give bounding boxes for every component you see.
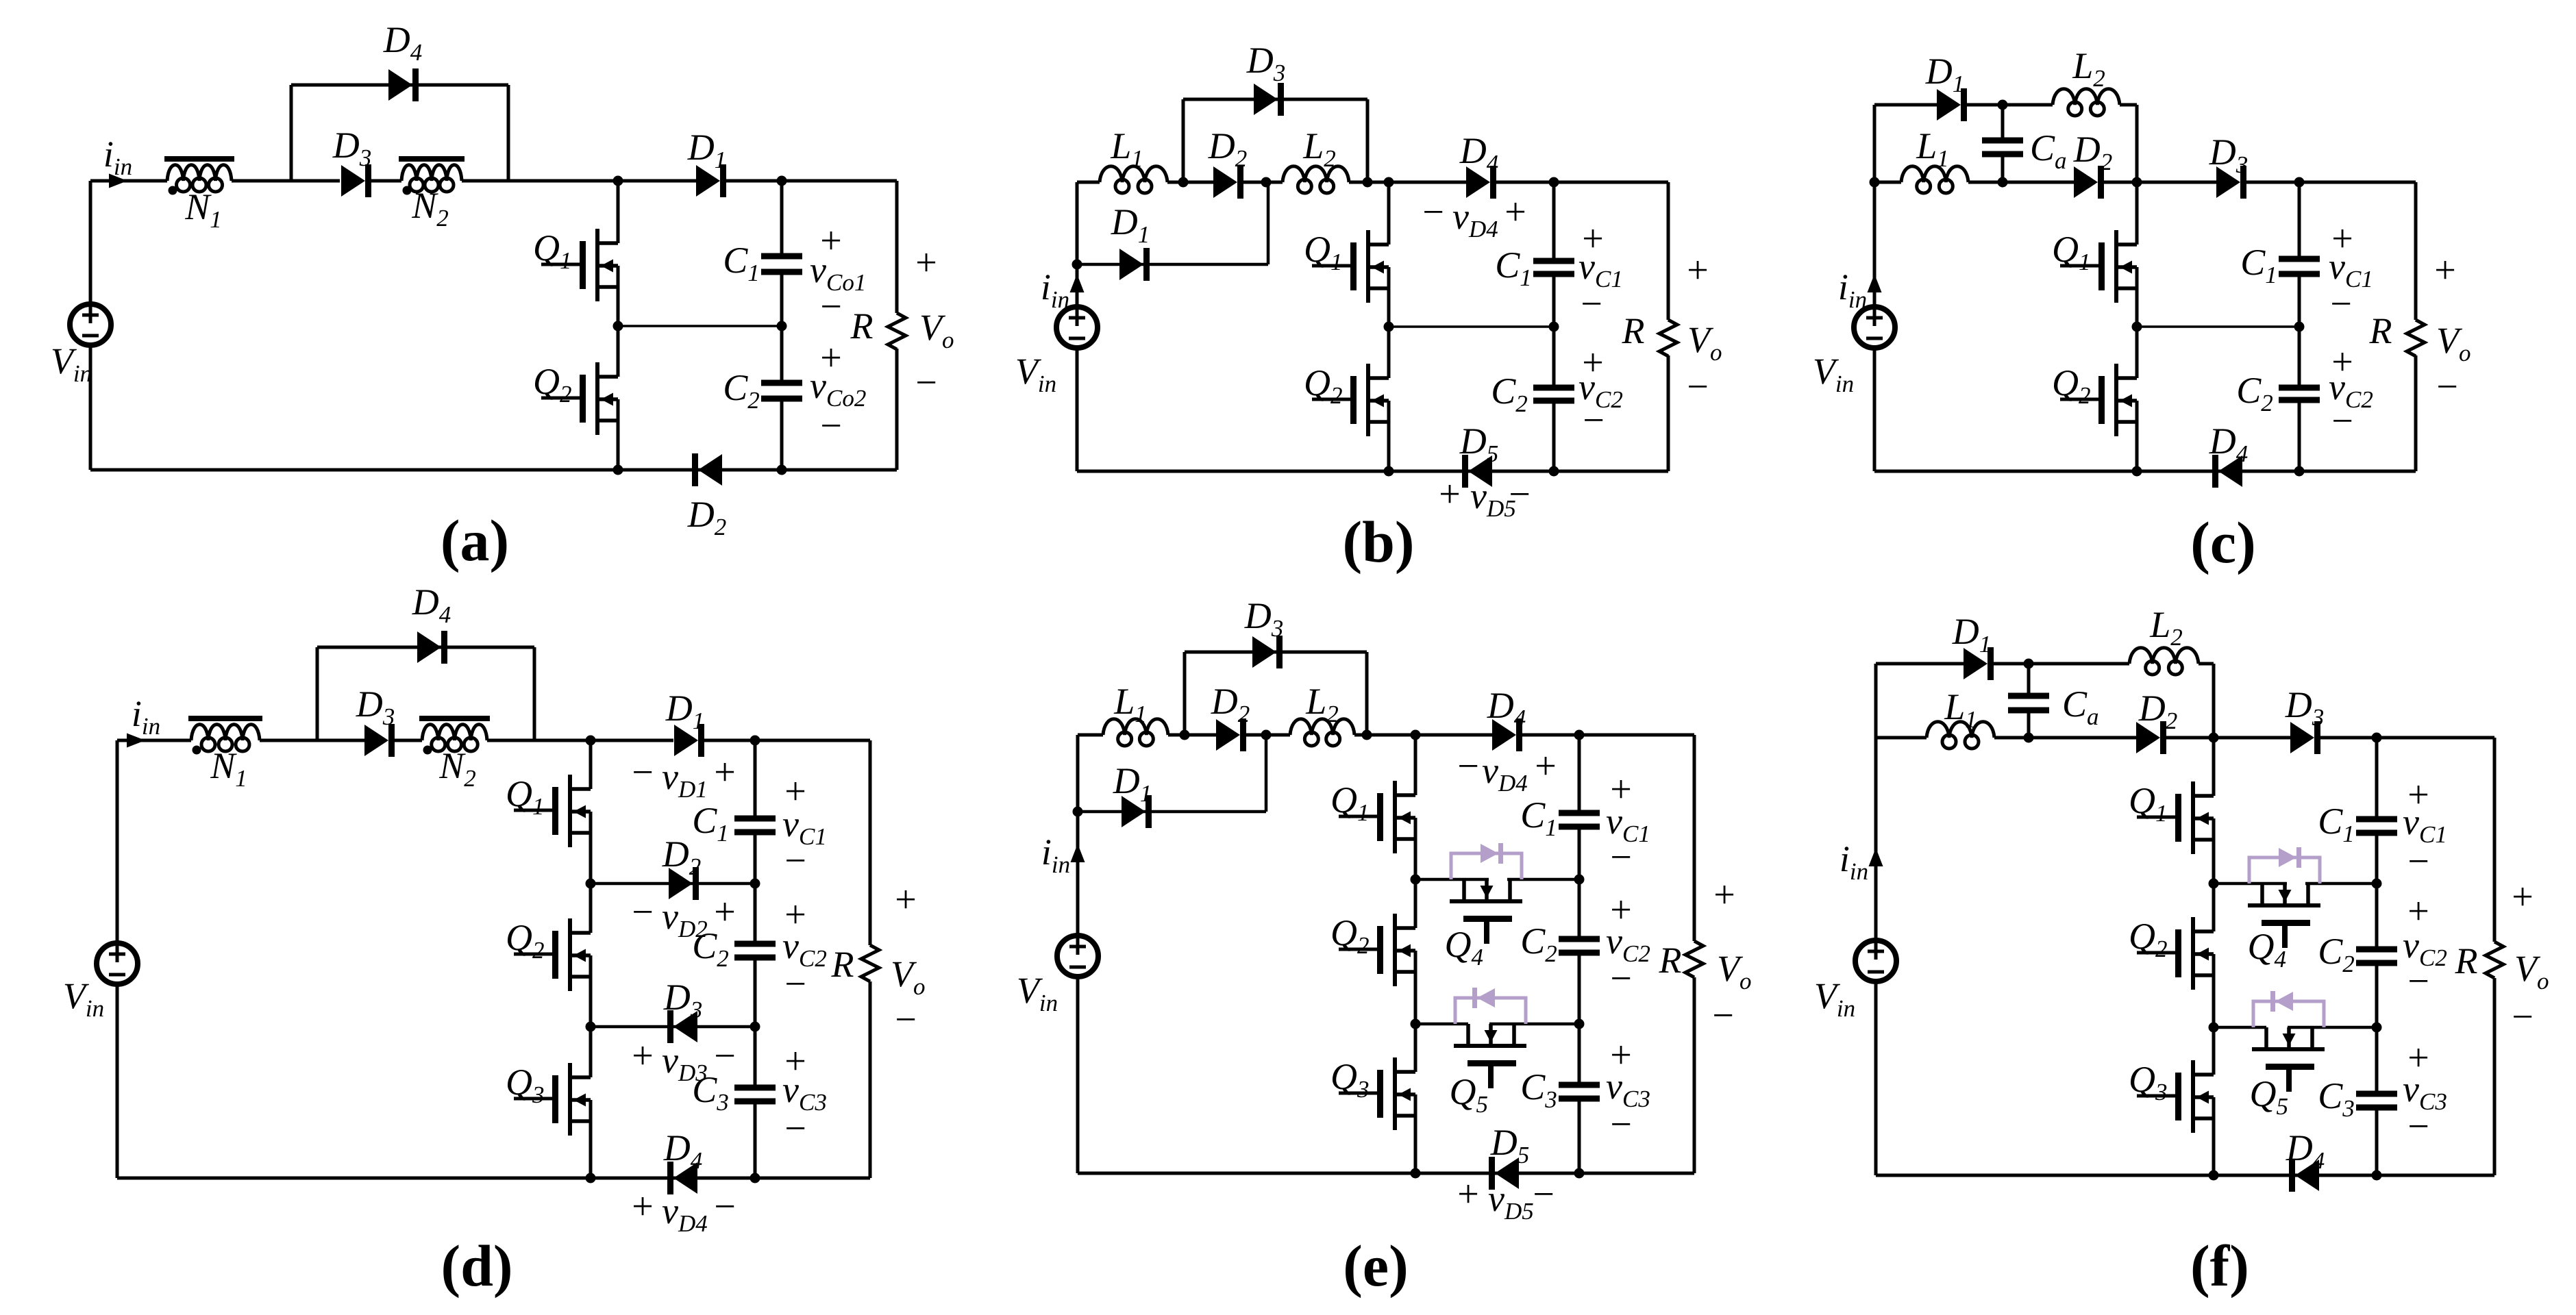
svg-text:−: − [632,751,654,794]
(c) wire: Q2 source to bottom [2135,401,2139,471]
(f) input current arrow i_in [1869,848,1883,866]
(f) wire: Q2 drain [2212,884,2216,931]
(a) coupled winding N2 [399,156,465,195]
(a) wire: N1 to D3 [232,179,340,183]
(a) voltage source Vin [70,304,111,345]
(e) wire: C3 to bottom [1578,1099,1581,1173]
(b) wire: C-rail top segment [1552,182,1556,261]
svg-text:+: + [1713,874,1735,916]
(d) wire: Q1 drain [589,740,593,789]
svg-text:+: + [1504,191,1526,234]
(f) inductor L2 [2129,648,2199,675]
svg-text:R: R [2455,940,2478,981]
svg-text:−: − [2407,1105,2429,1148]
(e) node: L1-loop junction [1180,730,1190,740]
(b) capacitor C2 [1533,385,1574,404]
(d) label D3 [356,684,395,730]
(c) label D4 [2209,421,2249,467]
(f) resistor R [2486,942,2503,978]
(e) wire: Q2 drain [1414,879,1417,928]
(b) wire: L1 to D2 [1167,181,1213,184]
(a) label vCo2 [810,365,866,412]
(a) sign + of Vo [915,242,937,284]
(b) node: Q-rail bottom junction [1384,466,1394,477]
(c) label D1 [1925,51,1965,97]
(d) label vC2 [782,925,827,972]
(a) wire: output rail bottom [895,349,899,470]
(d) sign - of vC2 [784,963,806,1005]
(b) sign - of vC2 [1583,399,1605,442]
(b) label R [1622,310,1645,351]
(b) wire: mid link [1389,325,1554,328]
(a) label D4 [383,19,423,66]
(f) body diode of Q4 [2249,847,2320,884]
(d) label N2 [438,745,476,792]
(b) wire: D3 loop top [1183,98,1367,101]
(e) label Vo [1717,948,1752,994]
(e) label D4 [1487,685,1526,731]
(a) wire: Q2 drain [617,326,620,377]
(a) node: C-rail bottom junction [777,465,787,475]
(d) sign - of vD3 [714,1035,736,1077]
(d) diode D4 ladder [667,1162,697,1194]
(e) wire: Q3 source to bottom [1414,1094,1417,1173]
(b) diode D4 [1466,166,1496,199]
(b) wire: D1 row [1077,263,1268,266]
(f) node: Q-rail top junction [2209,733,2219,743]
(f) sign - of vC2 [2407,960,2429,1003]
(a) label vCo1 [810,249,866,296]
(b) label C1 [1495,245,1532,291]
svg-text:R: R [1622,310,1645,351]
(f) transistor Q4 [2248,884,2320,948]
(d) label D4 top [412,581,451,628]
(d) wire: row1 link [591,882,755,886]
svg-text:+: + [1687,249,1709,292]
(b) wire: Q2 drain [1387,327,1391,378]
(c) label L2 [2072,45,2105,92]
svg-text:+: + [1439,473,1461,516]
(c) sign - of vC2 [2331,400,2353,442]
(f) label Q3 [2129,1059,2168,1105]
(d) sign - of vD1 [632,751,654,794]
(e) label i_in [1041,831,1070,878]
(e) wire: L2 to Q-rail [1354,734,1415,737]
(d) wire: Q3 source to bottom [589,1100,593,1178]
(b) resistor R [1659,320,1677,356]
(b) label L1 [1110,125,1143,172]
(b) wire: C2 to bottom [1552,401,1556,471]
(d) sign + of vD4 [632,1186,654,1228]
(e) label Q4 [1445,924,1484,970]
(b) node: C mid junction [1549,322,1559,332]
(c) node: C mid junction [2294,322,2305,332]
(e) label R [1659,940,1682,981]
(a) label Q2 [533,361,572,408]
svg-text:+: + [632,1035,654,1077]
svg-text:−: − [1610,1103,1632,1146]
(e) node: C-rail bottom junction [1574,1168,1585,1179]
(c) wire: bottom rail [1874,470,2416,473]
svg-text:−: − [2331,400,2353,442]
svg-text:R: R [2369,310,2392,351]
(b) label Vo [1687,319,1722,366]
(f) transistor Q1 [2137,781,2214,854]
(b) wire: mid to C2 [1552,327,1556,388]
(f) wire: row1 left segment [2214,882,2287,886]
(d) sign + of vC3 [784,1040,806,1083]
(a) node: C-rail top junction [777,176,787,186]
(b) diode D5 [1462,455,1492,488]
(a) transistor Q2 [541,362,618,435]
svg-text:−: − [2436,366,2458,408]
(d) wire: snubber loop right leg [533,647,536,740]
(e) transistor Q1 [1339,781,1415,853]
(c) transistor Q1 [2060,230,2137,303]
(b) wire: Q1 source to mid [1387,267,1391,327]
(d) sign - of vC3 [784,1107,806,1150]
(b) diode D2 [1213,166,1243,199]
(a) node: C mid junction [777,321,787,331]
svg-text:−: − [820,405,842,447]
(b) wire: D3 loop right leg [1366,99,1370,182]
(d) sign + of vC1 [784,771,806,813]
(b) node: loop right junction [1363,177,1373,188]
(e) label D1 [1113,760,1152,807]
(e) node: C row2 junction [1574,1019,1585,1029]
(e) node: Q-rail bottom junction [1411,1168,1421,1179]
(f) node: Q row2 junction [2209,1023,2219,1033]
(d) capacitor C1 [734,816,776,836]
(a) wire: C1 to mid [780,272,784,326]
(b) inductor L1 [1100,166,1167,193]
(b) sign + of vC2 [1582,342,1604,384]
svg-text:−: − [2330,283,2352,325]
(d) label R [831,944,854,985]
(b) wire: Q2 source to bottom [1387,401,1391,471]
svg-text:−: − [784,1107,806,1150]
(f) wire: Q3 source to bottom [2212,1097,2216,1175]
(b) node: C-rail bottom junction [1549,466,1559,477]
(e) wire: row2 to C3 [1578,1024,1581,1085]
(d) diode D3 ladder [667,1010,697,1043]
(d) wire: below source to bottom [116,984,119,1178]
(b) label vD5 [1470,475,1516,522]
(e) wire: D1 branch vertical [1265,735,1268,812]
(e) wire: Q1 drain [1414,735,1417,795]
(c) resistor R [2407,320,2425,356]
(d) wire: Q1 source to row1 [589,812,593,884]
(f) label Vo [2514,948,2549,994]
(a) wire: snubber loop left leg [290,85,293,181]
(d) label N1 [210,745,247,792]
(d) wire: snubber loop left leg [316,647,319,740]
(e) diode D4 [1492,718,1522,751]
(b) wire: main to L1 [1077,181,1100,184]
(f) node: Ca top junction [2024,659,2034,669]
(d) wire: row2 to C3 [754,1027,757,1088]
(c) diode D3 [2216,166,2246,199]
(d) wire: C3 to bottom [754,1101,757,1178]
svg-text:−: − [714,1186,736,1228]
(c) node: Ca bottom junction [1998,177,2008,188]
(f) label R [2455,940,2478,981]
(f) wire: below source to bottom [1874,981,1878,1175]
(d) wire: Q2 drain [589,884,593,933]
(f) wire: bottom rail [1876,1174,2494,1177]
(f) wire: Q-rail to D3 [2214,736,2293,740]
(b) label Q1 [1304,229,1343,275]
(a) capacitor C2 [761,380,802,402]
(a) wire: input top from source to N1 [90,179,167,183]
(b) inductor L2 [1283,166,1349,193]
(c) wire: top right to output rail [2299,181,2416,184]
(a) sign - of vCo2 [820,405,842,447]
(c) capacitor C1 [2279,256,2320,277]
(d) node: Q row1 junction [586,879,596,889]
(e) label vD4 [1482,750,1528,797]
(e) wire: C1 to row1 [1578,827,1581,879]
(e) sign - of Vo [1712,994,1734,1037]
(e) capacitor C1 [1559,810,1600,830]
(e) wire: D3 loop left leg [1183,652,1187,735]
(a) label Vo [919,307,954,353]
(e) body diode of Q5 [1455,988,1526,1024]
(e) wire: left vertical mid [1076,812,1080,936]
(f) node: C row2 junction [2372,1023,2382,1033]
(d) label vD3 [662,1040,708,1086]
svg-text:+: + [915,242,937,284]
(b) wire: Q-rail to D4 [1389,181,1466,184]
(c) wire: top rail left [1874,103,1937,107]
(f) wire: row2 right segment [2288,1026,2377,1029]
(e) wire: D2 to L2 [1241,734,1290,737]
(f) sign - of vC1 [2407,840,2429,883]
(a) label N2 [411,185,449,231]
(b) label Q2 [1304,362,1343,409]
(f) label D3 [2285,684,2325,731]
(c) wire: Q-rail to D3 [2137,181,2218,184]
(d) voltage source Vin [97,943,138,984]
(f) capacitor Ca [2008,664,2049,738]
svg-text:−: − [1583,399,1605,442]
(d) sign + of Vo [895,879,917,921]
(c) wire: C-rail top segment [2298,182,2301,259]
(f) inductor L1 [1927,722,1994,749]
(c) node: C-rail top junction [2294,177,2305,188]
(a) wire: D1 to C-rail node [722,179,782,183]
(f) transistor Q3 [2137,1060,2214,1133]
(a) wire: N2 to Q-rail node [462,179,618,183]
svg-text:−: − [2512,996,2534,1038]
(b) capacitor C1 [1533,258,1574,277]
(b) label vC1 [1578,246,1623,292]
(e) wire: row2 left segment [1415,1023,1468,1026]
(d) node: Q-rail top junction [586,736,596,746]
(d) label Vin [63,975,104,1022]
(c) wire: C2 to bottom [2298,400,2301,471]
(d) label i_in [132,693,160,740]
(d) wire: C1 to row1 [754,832,757,884]
(d) diode D3 [364,724,395,757]
(e) wire: C-rail top segment [1578,735,1581,813]
(d) wire: D3 to N2 [391,739,422,742]
(e) wire: row1 to C2 [1578,879,1581,939]
(a) wire: Q2 source to bottom [617,399,620,470]
(b) wire: output rail top [1667,182,1670,320]
(e) wire: output rail bottom [1693,977,1696,1173]
(f) wire: C2 to row2 [2375,963,2379,1027]
svg-text:+: + [2434,249,2456,292]
(f) label Q2 [2129,916,2168,962]
svg-text:+: + [714,751,736,794]
(f) wire: output rail top [2493,738,2497,942]
(f) label D4 [2286,1127,2325,1174]
(f) label Q1 [2129,780,2168,827]
(e) wire: below source to bottom [1076,977,1080,1173]
(e) label D5 [1490,1122,1530,1168]
(f) label i_in [1840,838,1868,885]
(c) voltage source Vin [1854,307,1895,348]
(f) wire: D3 to C-rail [2318,736,2377,740]
svg-text:R: R [831,944,854,985]
(b) label D4 [1459,130,1499,177]
(e) wire: Q2 source to row2 [1414,951,1417,1024]
subfigure (b) caption [1342,509,1414,575]
(d) label D1 [665,688,705,734]
(b) label D2 [1208,125,1248,172]
(d) wire: D1 to C-rail node [700,739,755,742]
(e) capacitor C3 [1559,1082,1600,1102]
(f) label D1 [1952,611,1992,657]
(f) label Q4 [2248,926,2287,973]
(d) sign + of vD3 [632,1035,654,1077]
(b) diode D1 [1119,248,1150,281]
(f) wire: top rail left [1876,662,1966,666]
(f) capacitor C2 [2356,947,2397,966]
(e) wire: L1 to D2 [1168,734,1216,737]
(d) input current arrow i_in [127,734,145,748]
(d) label vD2 [662,896,708,942]
(a) label C2 [723,367,760,414]
(b) node: C-rail top junction [1549,177,1559,188]
(c) node: Q-rail bottom junction [2132,466,2142,477]
(f) label L1 [1944,686,1977,733]
(e) wire: Q3 drain [1414,1024,1417,1072]
svg-text:+: + [2512,876,2534,918]
(a) wire: Q1 source to mid node [617,266,620,326]
(e) node: Q-rail top junction [1411,730,1421,740]
(b) input current arrow i_in [1070,274,1085,292]
(a) wire: top right to output rail [782,179,897,183]
(c) label C2 [2236,370,2273,416]
(b) wire: bottom rail [1077,470,1668,473]
svg-text:−: − [895,999,917,1041]
(a) sign - of Vo [915,362,937,404]
(d) diode D4 top [417,631,447,664]
(c) wire: output rail bottom [2414,355,2418,471]
(c) diode D2 [2074,166,2104,199]
(b) wire: left vertical top [1076,182,1079,264]
(e) label D2 [1211,681,1250,727]
(a) wire: output rail top [895,181,899,313]
(e) wire: main to L1 [1078,734,1103,737]
(d) label D3 ladder [663,977,703,1023]
(a) capacitor C1 [761,253,802,275]
(c) label D3 [2209,131,2249,178]
(d) wire: left vertical [116,740,119,943]
(a) label Vin [51,340,92,387]
(e) capacitor C2 [1559,936,1600,956]
(e) sign + of vD5 [1457,1173,1479,1216]
(e) sign - of vC1 [1610,836,1632,879]
(c) wire: L2 to loop right leg [2120,103,2137,107]
(a) label D2 [687,494,727,540]
(b) voltage source Vin [1056,307,1098,348]
(d) diode D2 [669,867,699,900]
(c) label R [2369,310,2392,351]
subfigure (d) caption [441,1233,512,1299]
(b) wire: D2 to L2 [1239,181,1283,184]
(f) sign - of vC3 [2407,1105,2429,1148]
(f) transistor Q5 [2252,1027,2325,1092]
(c) sign + of vC1 [2331,218,2353,260]
(f) label vC2 [2403,925,2447,971]
(e) wire: D3 loop top [1185,651,1367,654]
(c) label vC2 [2329,366,2373,413]
(f) label vC1 [2403,801,2447,848]
svg-text:R: R [850,305,874,347]
(c) wire: C1 to mid [2298,274,2301,327]
(b) wire: D4 to C-rail [1492,181,1554,184]
(e) wire: Q-rail to D4 [1415,734,1492,737]
(f) wire: loop right leg down [2212,664,2216,738]
(f) wire: D1 to L2 [1992,662,2129,666]
(d) label C1 [692,800,729,847]
(f) label vC3 [2403,1068,2447,1115]
svg-text:+: + [895,879,917,921]
(f) wire: output rail bottom [2493,978,2497,1175]
(e) label Q2 [1330,912,1370,959]
(f) wire: D2 to Q-rail [2162,736,2214,740]
svg-text:−: − [784,840,806,882]
svg-text:(b): (b) [1342,509,1414,575]
(f) label Ca [2062,684,2099,730]
(a) label i_in [103,134,132,180]
(b) label vC2 [1578,366,1623,413]
(a) label Q1 [533,227,572,274]
(d) sign - of vD4 [714,1186,736,1228]
(a) diode D1 [696,164,726,197]
(d) label D2 [662,834,702,880]
(d) diode D1 [674,724,704,757]
(e) label C3 [1520,1066,1557,1113]
(a) label N1 [184,186,222,233]
(c) sign + of vC2 [2331,341,2353,384]
(c) sign + of Vo [2434,249,2456,292]
(c) wire: mid to C2 [2298,327,2301,388]
(a) wire: C2 to bottom [780,399,784,470]
(f) wire: row1 right segment [2305,882,2377,886]
(f) capacitor C1 [2356,816,2397,836]
(a) wire: D3 to N2 [371,179,401,183]
(c) wire: L1 to D2 [1968,181,2074,184]
(a) node: Q-rail top junction [613,176,623,186]
(c) wire: D2 to Q-rail [2099,181,2137,184]
svg-text:(e): (e) [1343,1233,1408,1299]
svg-text:−: − [1712,994,1734,1037]
(e) node: D2-L2 junction [1261,730,1272,740]
